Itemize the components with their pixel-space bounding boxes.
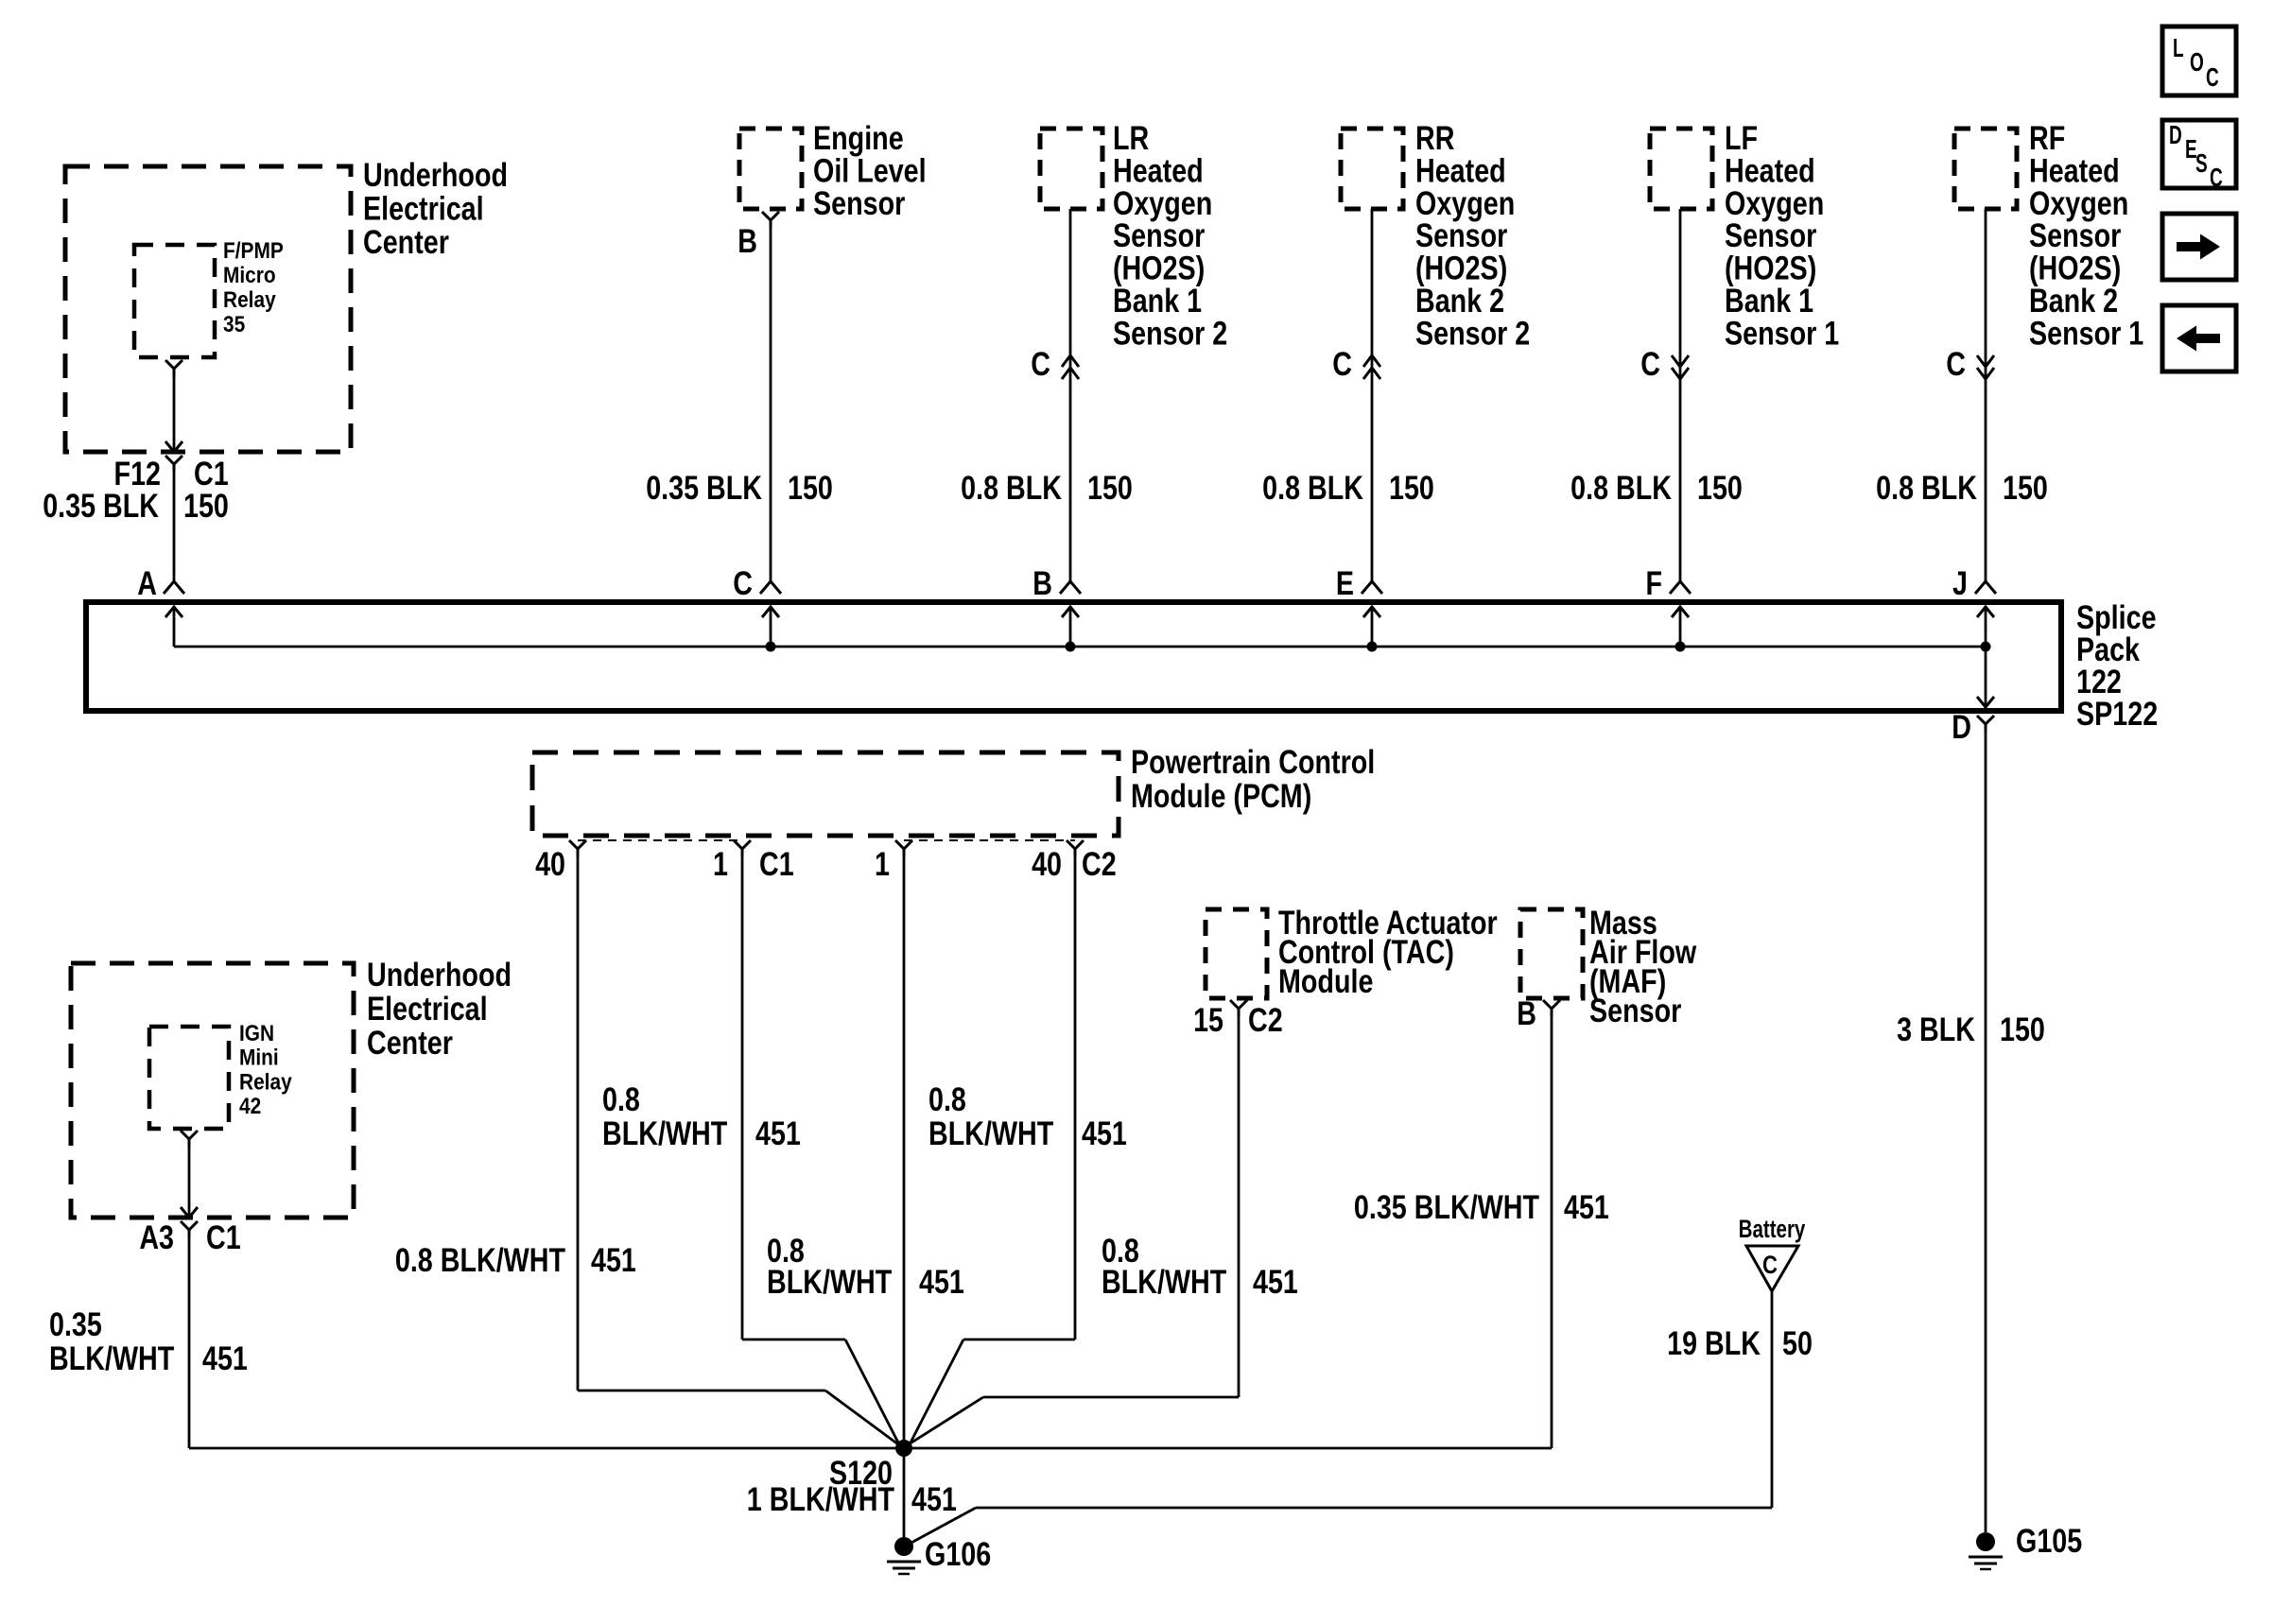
svg-text:C1: C1 xyxy=(206,1218,241,1255)
svg-text:Center: Center xyxy=(367,1024,453,1061)
svg-text:451: 451 xyxy=(919,1263,964,1300)
svg-text:0.8: 0.8 xyxy=(602,1080,640,1117)
svg-text:E: E xyxy=(1336,564,1354,601)
svg-text:451: 451 xyxy=(1564,1188,1609,1225)
svg-text:C: C xyxy=(1946,345,1966,382)
svg-text:35: 35 xyxy=(223,312,245,337)
svg-text:451: 451 xyxy=(1253,1263,1298,1300)
svg-text:Sensor 1: Sensor 1 xyxy=(1725,315,1839,352)
svg-text:451: 451 xyxy=(1082,1114,1127,1151)
svg-text:0.8 BLK: 0.8 BLK xyxy=(1570,469,1672,506)
svg-text:J: J xyxy=(1952,564,1968,601)
svg-text:150: 150 xyxy=(2000,1011,2045,1047)
svg-text:BLK/WHT: BLK/WHT xyxy=(928,1114,1054,1151)
svg-text:C2: C2 xyxy=(1248,1001,1283,1038)
svg-text:Electrical: Electrical xyxy=(363,190,484,227)
svg-text:Micro: Micro xyxy=(223,263,276,288)
svg-text:Module: Module xyxy=(1278,962,1373,999)
svg-text:0.8 BLK: 0.8 BLK xyxy=(1876,469,1977,506)
svg-text:D: D xyxy=(1952,708,1971,745)
svg-text:150: 150 xyxy=(2003,469,2048,506)
svg-text:BLK/WHT: BLK/WHT xyxy=(1102,1263,1227,1300)
svg-text:Underhood: Underhood xyxy=(367,956,512,993)
svg-text:C: C xyxy=(1640,345,1660,382)
svg-text:0.8: 0.8 xyxy=(928,1080,966,1117)
svg-text:Module (PCM): Module (PCM) xyxy=(1131,777,1311,814)
svg-text:0.8 BLK/WHT: 0.8 BLK/WHT xyxy=(395,1241,566,1278)
svg-text:B: B xyxy=(1517,994,1536,1031)
svg-text:B: B xyxy=(1032,564,1052,601)
svg-text:451: 451 xyxy=(591,1241,636,1278)
svg-text:15: 15 xyxy=(1193,1001,1223,1038)
svg-text:F: F xyxy=(1645,564,1662,601)
svg-text:19 BLK: 19 BLK xyxy=(1667,1324,1761,1361)
svg-text:451: 451 xyxy=(911,1480,957,1517)
svg-text:G105: G105 xyxy=(2016,1522,2082,1559)
svg-text:BLK/WHT: BLK/WHT xyxy=(49,1339,175,1376)
svg-text:0.35: 0.35 xyxy=(49,1305,102,1342)
svg-text:150: 150 xyxy=(183,487,229,524)
svg-text:1 BLK/WHT: 1 BLK/WHT xyxy=(747,1480,895,1517)
svg-text:40: 40 xyxy=(1032,845,1062,882)
svg-text:Sensor: Sensor xyxy=(1589,992,1681,1028)
svg-text:0.8 BLK: 0.8 BLK xyxy=(1262,469,1363,506)
svg-text:150: 150 xyxy=(1697,469,1743,506)
svg-text:D: D xyxy=(2169,120,2182,150)
svg-text:A: A xyxy=(137,564,157,601)
svg-text:50: 50 xyxy=(1782,1324,1813,1361)
svg-text:Electrical: Electrical xyxy=(367,990,488,1027)
svg-text:S: S xyxy=(2195,148,2208,179)
svg-text:C: C xyxy=(1762,1252,1778,1280)
svg-text:Battery: Battery xyxy=(1739,1215,1806,1243)
svg-text:150: 150 xyxy=(788,469,833,506)
svg-text:BLK/WHT: BLK/WHT xyxy=(602,1114,728,1151)
svg-text:1: 1 xyxy=(875,845,890,882)
svg-text:C2: C2 xyxy=(1082,845,1117,882)
svg-text:L: L xyxy=(2173,33,2184,63)
svg-text:Relay: Relay xyxy=(239,1069,292,1095)
svg-text:O: O xyxy=(2190,47,2204,78)
svg-text:42: 42 xyxy=(239,1094,261,1119)
svg-text:150: 150 xyxy=(1389,469,1434,506)
svg-text:C: C xyxy=(2210,163,2223,193)
svg-text:Powertrain Control: Powertrain Control xyxy=(1131,743,1375,780)
svg-text:IGN: IGN xyxy=(239,1021,274,1046)
svg-text:G106: G106 xyxy=(925,1535,991,1572)
svg-text:0.8 BLK: 0.8 BLK xyxy=(961,469,1062,506)
svg-text:A3: A3 xyxy=(139,1218,174,1255)
svg-text:0.35 BLK/WHT: 0.35 BLK/WHT xyxy=(1354,1188,1540,1225)
svg-text:0.35 BLK: 0.35 BLK xyxy=(43,487,159,524)
svg-text:Sensor 2: Sensor 2 xyxy=(1113,315,1227,352)
svg-text:Sensor: Sensor xyxy=(813,184,905,221)
svg-text:C1: C1 xyxy=(759,845,794,882)
svg-text:SP122: SP122 xyxy=(2076,695,2158,732)
svg-text:1: 1 xyxy=(713,845,728,882)
svg-text:150: 150 xyxy=(1087,469,1133,506)
svg-text:40: 40 xyxy=(535,845,565,882)
svg-text:3 BLK: 3 BLK xyxy=(1897,1011,1975,1047)
svg-text:Center: Center xyxy=(363,223,449,260)
svg-text:C: C xyxy=(733,564,753,601)
svg-text:C: C xyxy=(1332,345,1352,382)
svg-text:0.35 BLK: 0.35 BLK xyxy=(646,469,762,506)
svg-text:C: C xyxy=(2206,62,2219,93)
svg-text:Sensor 2: Sensor 2 xyxy=(1415,315,1530,352)
svg-text:B: B xyxy=(737,222,757,259)
svg-text:451: 451 xyxy=(755,1114,801,1151)
svg-text:Sensor 1: Sensor 1 xyxy=(2029,315,2143,352)
svg-text:451: 451 xyxy=(202,1339,248,1376)
svg-text:BLK/WHT: BLK/WHT xyxy=(767,1263,893,1300)
svg-text:Relay: Relay xyxy=(223,287,276,313)
svg-text:C: C xyxy=(1031,345,1050,382)
svg-text:Mini: Mini xyxy=(239,1045,279,1070)
svg-text:Underhood: Underhood xyxy=(363,156,508,193)
svg-text:F/PMP: F/PMP xyxy=(223,238,284,264)
